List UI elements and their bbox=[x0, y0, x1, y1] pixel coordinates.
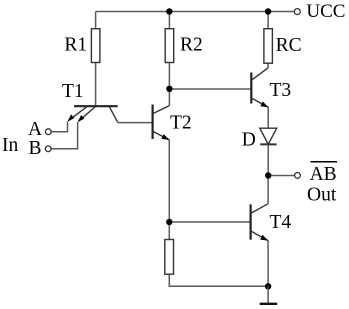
resistor T2 emitter (unlabeled) bbox=[165, 240, 174, 275]
svg-text:T2: T2 bbox=[170, 113, 192, 134]
transistor T1 (multi-emitter) bbox=[68, 106, 118, 122]
wire R2 bottom lead bbox=[168, 63, 170, 89]
resistor R1 bbox=[91, 29, 100, 63]
svg-text:D: D bbox=[242, 130, 256, 151]
wire RC bottom lead bbox=[267, 63, 269, 68]
svg-text:AB: AB bbox=[310, 164, 337, 185]
wire RC top lead bbox=[267, 12, 269, 29]
svg-text:R1: R1 bbox=[64, 34, 87, 55]
svg-text:T3: T3 bbox=[270, 80, 292, 101]
wire resistor bottom to ground node bbox=[169, 274, 268, 286]
wire node to emitter resistor bbox=[168, 222, 170, 240]
resistor RC bbox=[264, 29, 273, 64]
wire R1 top lead bbox=[95, 12, 97, 29]
svg-text:T4: T4 bbox=[270, 212, 292, 233]
svg-text:A: A bbox=[28, 119, 42, 140]
wire T2 emitter down bbox=[168, 140, 170, 222]
terminal input A bbox=[45, 129, 51, 135]
junction node output bbox=[265, 172, 271, 178]
wire output node to terminal bbox=[268, 175, 294, 177]
wire T3 emitter to diode bbox=[267, 107, 269, 128]
junction node R2/T2/T3-base bbox=[166, 86, 172, 92]
transistor T4 bbox=[251, 204, 269, 241]
resistor R2 bbox=[165, 29, 174, 63]
junction dot rail-R2 bbox=[166, 8, 172, 14]
wire node to T3 base bbox=[169, 88, 251, 90]
junction node ground bbox=[265, 283, 271, 289]
svg-text:T1: T1 bbox=[62, 81, 84, 102]
wire T1 collector to T2 base bbox=[118, 122, 153, 124]
wire T4 emitter to ground node bbox=[267, 241, 269, 287]
wire R1 bottom to T1 base bbox=[95, 63, 97, 107]
wire node to T4 base bbox=[169, 221, 250, 223]
terminal output bbox=[295, 173, 301, 179]
diode D bbox=[260, 128, 277, 144]
terminal input B bbox=[45, 146, 51, 152]
svg-text:RC: RC bbox=[276, 35, 302, 56]
svg-text:R2: R2 bbox=[180, 34, 203, 55]
ground bbox=[260, 286, 278, 304]
wire node to T2 collector bbox=[168, 89, 170, 106]
junction node T2-emitter/T4-base bbox=[166, 219, 172, 225]
wire output node to T4 collector bbox=[267, 176, 269, 204]
transistor T2 bbox=[153, 105, 170, 140]
wire R2 top lead bbox=[168, 12, 170, 29]
svg-text:UCC: UCC bbox=[306, 1, 345, 22]
terminal UCC bbox=[294, 9, 300, 15]
svg-text:Out: Out bbox=[307, 184, 337, 205]
junction dot rail-RC bbox=[265, 8, 271, 14]
wire emitter1 to input A bbox=[51, 122, 67, 132]
svg-text:B: B bbox=[29, 138, 42, 159]
transistor T3 bbox=[251, 68, 268, 107]
svg-text:In: In bbox=[2, 135, 18, 156]
wire emitter2 to input B bbox=[51, 122, 77, 149]
wire UCC power rail bbox=[96, 11, 295, 13]
wire diode to output node bbox=[267, 144, 269, 175]
